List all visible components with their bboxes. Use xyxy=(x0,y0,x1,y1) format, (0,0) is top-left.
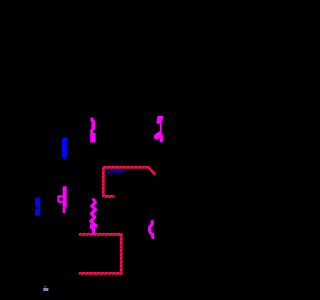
cursor mark (faint blue) xyxy=(43,286,48,291)
value label (rotated, unreadable) for C? xyxy=(62,138,67,160)
svg-text:100nF: 100nF xyxy=(106,169,126,176)
photo device D? (vertical bar with two incoming arrows) xyxy=(154,116,163,142)
wire net N2 (open rectangle, left side open) xyxy=(80,234,121,273)
value label (rotated, unreadable) lower-left xyxy=(35,198,40,216)
wire net N1 (top-left corner run with diagonal end) xyxy=(103,167,154,196)
transistor Q? (magenta d-shaped symbol) xyxy=(57,186,66,213)
resistor R? (vertical zig-zag) xyxy=(90,200,97,233)
capacitor C? symbol (magenta J-shaped curved plate) xyxy=(90,117,95,142)
inductor L? (magenta open-bracket hook) xyxy=(149,222,152,238)
